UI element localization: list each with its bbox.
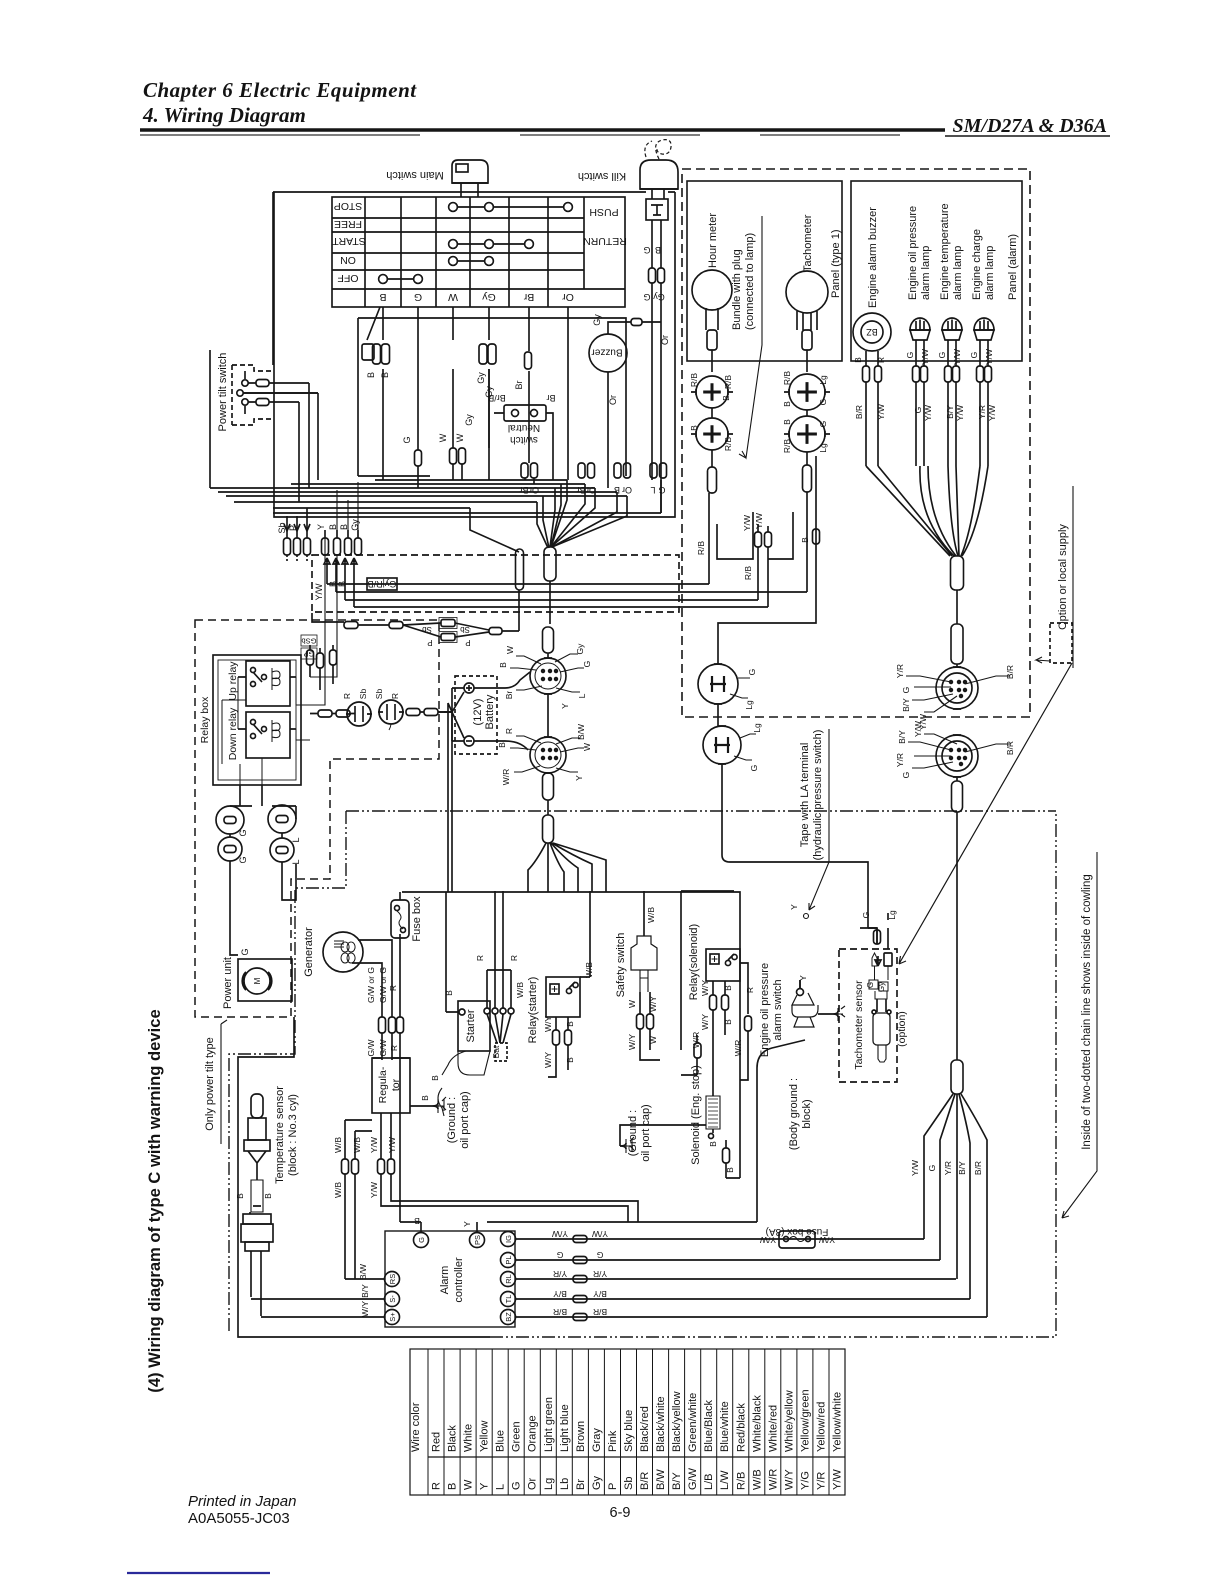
svg-text:W/R: W/R <box>501 769 511 786</box>
svg-text:L: L <box>291 859 301 864</box>
adapter cross-link cluster <box>312 613 519 643</box>
starter terminal cluster <box>484 891 514 1061</box>
regulator lower wires <box>342 1113 639 1279</box>
right fan labels <box>910 1160 983 1176</box>
svg-text:Panel (alarm): Panel (alarm) <box>1007 234 1019 300</box>
power tilt switch body <box>232 365 273 425</box>
svg-text:RS: RS <box>388 1274 397 1284</box>
svg-text:(Ground :: (Ground : <box>446 1097 458 1143</box>
svg-text:Safety switch: Safety switch <box>615 933 627 998</box>
svg-text:OFF: OFF <box>338 272 359 284</box>
svg-text:B/Y: B/Y <box>945 405 955 419</box>
svg-text:Fuse box: Fuse box <box>411 896 423 942</box>
starter B wire <box>438 1051 466 1116</box>
svg-text:G: G <box>969 352 979 359</box>
tachometer connector b <box>784 416 830 452</box>
svg-text:Yellow/green: Yellow/green <box>799 1389 811 1452</box>
relay box internal wires <box>222 677 310 785</box>
7pin leader lines upper <box>906 676 1010 712</box>
svg-text:Black: Black <box>447 1425 459 1452</box>
svg-text:oil port cap): oil port cap) <box>459 1091 471 1148</box>
svg-text:Alarm: Alarm <box>439 1266 451 1295</box>
svg-text:Orange: Orange <box>527 1415 539 1452</box>
svg-text:Y/W: Y/W <box>314 583 324 601</box>
svg-text:RL: RL <box>504 1274 513 1284</box>
temperature sensor label <box>274 1086 299 1184</box>
battery feed verticals <box>438 692 464 892</box>
svg-text:Engine alarm buzzer: Engine alarm buzzer <box>867 207 879 308</box>
svg-text:G/W or G: G/W or G <box>366 967 376 1003</box>
svg-text:Sb: Sb <box>277 522 287 533</box>
harness 6pin connector lower <box>530 737 566 773</box>
svg-text:W/Y: W/Y <box>543 1016 553 1032</box>
svg-text:W: W <box>455 433 465 442</box>
svg-text:R/B: R/B <box>782 371 792 386</box>
svg-text:TL: TL <box>504 1295 513 1304</box>
tilt connector wires <box>230 785 296 955</box>
svg-text:Y/W: Y/W <box>369 1182 379 1198</box>
svg-text:W: W <box>648 1036 658 1044</box>
svg-text:R/B: R/B <box>782 439 792 454</box>
svg-text:Y: Y <box>479 1482 491 1490</box>
svg-text:PL: PL <box>504 1255 513 1264</box>
down relay <box>238 712 296 758</box>
svg-text:Chapter 6 Electric Equipment: Chapter 6 Electric Equipment <box>143 78 417 102</box>
4pin upper leaders <box>730 678 750 698</box>
wires below cylinders <box>519 581 550 631</box>
hour meter <box>692 270 732 372</box>
engine connector cylinder right <box>951 1060 963 1094</box>
PS terminal wire <box>476 1222 478 1232</box>
panel connector cylinder <box>951 624 963 664</box>
svg-text:Blue: Blue <box>495 1430 507 1452</box>
svg-text:W/B: W/B <box>751 1469 763 1490</box>
svg-text:R/B: R/B <box>743 566 753 581</box>
power tilt switch contacts <box>237 371 318 414</box>
boxed labels G Sb / G P <box>301 635 317 659</box>
note leader line <box>739 216 762 458</box>
relay box outline <box>213 655 301 785</box>
svg-text:BZ: BZ <box>504 1312 513 1322</box>
svg-text:B: B <box>689 425 699 431</box>
relay solenoid box <box>706 949 740 981</box>
svg-text:White/red: White/red <box>767 1405 779 1452</box>
panel wires fan <box>866 466 988 556</box>
svg-text:Y/W: Y/W <box>832 1469 844 1490</box>
svg-text:Y/W: Y/W <box>923 405 933 421</box>
svg-text:B: B <box>366 372 376 378</box>
svg-text:alarm lamp: alarm lamp <box>952 246 964 300</box>
table contacts START row <box>449 240 534 249</box>
svg-text:G/W: G/W <box>378 1040 388 1057</box>
svg-text:Main switch: Main switch <box>386 169 443 181</box>
boxed label R/B <box>367 578 397 590</box>
svg-text:Light blue: Light blue <box>559 1404 571 1452</box>
svg-text:W/B: W/B <box>333 1137 343 1153</box>
svg-text:Gy: Gy <box>476 372 486 384</box>
kill switch drawing <box>640 160 678 220</box>
svg-text:G/W or G: G/W or G <box>378 967 388 1003</box>
svg-text:Blue/white: Blue/white <box>719 1401 731 1452</box>
body ground label <box>788 1078 813 1150</box>
table contacts STOP row <box>449 203 573 212</box>
svg-text:Gy: Gy <box>592 314 602 326</box>
svg-text:Tachometer sensor: Tachometer sensor <box>853 980 865 1070</box>
svg-text:B/Y: B/Y <box>671 1472 683 1490</box>
svg-text:(block : No.3 cyl): (block : No.3 cyl) <box>287 1094 299 1176</box>
relay starter box <box>546 977 580 1017</box>
option leader to tachometer sensor <box>899 663 1072 964</box>
svg-text:switch: switch <box>510 434 538 445</box>
svg-text:B/W: B/W <box>655 1469 667 1490</box>
option leader arrow to panel box <box>1036 657 1050 663</box>
alarm controller box <box>385 1231 515 1327</box>
svg-text:Relay box: Relay box <box>199 696 211 743</box>
svg-text:Br: Br <box>576 485 585 495</box>
svg-text:Or: Or <box>608 395 618 405</box>
svg-text:Wire color: Wire color <box>410 1402 422 1452</box>
svg-text:B/Y: B/Y <box>897 730 907 744</box>
svg-text:Y/R: Y/R <box>553 1269 567 1279</box>
svg-text:G: G <box>414 291 422 303</box>
svg-text:Gy: Gy <box>591 1475 603 1490</box>
W/R bullet on R wire <box>740 1016 752 1080</box>
svg-text:Bat: Bat <box>491 1045 501 1058</box>
second cylinder below chain <box>543 815 554 843</box>
svg-text:IG: IG <box>504 1235 513 1243</box>
svg-text:B: B <box>782 419 792 425</box>
svg-text:Gray: Gray <box>591 1428 603 1452</box>
svg-text:W/B: W/B <box>515 982 525 998</box>
wire to 7pin connector <box>956 664 958 667</box>
svg-text:Y/W: Y/W <box>387 1137 397 1153</box>
svg-text:G: G <box>417 1237 426 1243</box>
svg-text:Red/black: Red/black <box>735 1403 747 1452</box>
temp sensor wires to terminals <box>251 1274 384 1317</box>
tilt connector 1 <box>216 806 244 834</box>
svg-text:A0A5055-JC03: A0A5055-JC03 <box>188 1510 290 1527</box>
svg-text:Y/R: Y/R <box>895 664 905 678</box>
svg-text:ON: ON <box>340 254 356 266</box>
svg-text:Only power tilt type: Only power tilt type <box>204 1037 216 1131</box>
svg-text:B: B <box>414 1216 420 1226</box>
svg-text:G: G <box>901 687 911 694</box>
header rule <box>140 130 1110 136</box>
svg-text:Option or local supply: Option or local supply <box>1057 524 1069 630</box>
harness collector wires <box>210 350 661 552</box>
main switch key drawing <box>452 160 488 197</box>
svg-text:Red: Red <box>431 1432 443 1452</box>
svg-text:Buzzer: Buzzer <box>591 347 623 358</box>
kill switch wires <box>649 220 665 283</box>
main switch contact table <box>332 197 625 307</box>
tachometer sensor body <box>869 953 892 1062</box>
svg-text:Y: Y <box>462 1221 472 1227</box>
svg-text:G: G <box>749 765 759 772</box>
svg-text:R/B: R/B <box>723 437 733 452</box>
engine harness wire below <box>956 812 958 1060</box>
oil pressure switch label <box>759 963 784 1057</box>
svg-text:Hour meter: Hour meter <box>707 213 719 268</box>
svg-text:Gy: Gy <box>877 982 886 992</box>
svg-text:Battery: Battery <box>484 694 496 729</box>
svg-text:B: B <box>725 1167 735 1173</box>
svg-text:Engine oil pressure: Engine oil pressure <box>759 963 771 1057</box>
svg-text:W: W <box>463 1479 475 1490</box>
svg-text:B/Y: B/Y <box>593 1289 607 1299</box>
svg-text:B: B <box>263 1193 273 1199</box>
svg-text:B/R: B/R <box>1005 665 1015 679</box>
panel (alarm) box <box>851 181 1022 361</box>
svg-text:B/Y: B/Y <box>360 1284 370 1298</box>
svg-text:Y/W: Y/W <box>742 515 752 531</box>
svg-text:B: B <box>723 985 733 991</box>
alarm controller label <box>439 1257 465 1303</box>
svg-text:W: W <box>582 743 592 751</box>
svg-text:White/yellow: White/yellow <box>783 1390 795 1452</box>
svg-text:G: G <box>597 1250 604 1260</box>
svg-text:R: R <box>509 955 519 961</box>
svg-text:Solenoid (Eng. stop): Solenoid (Eng. stop) <box>690 1065 702 1165</box>
svg-text:Y/W: Y/W <box>552 1229 568 1239</box>
tilt connector 4 <box>270 838 294 862</box>
svg-text:Power tilt switch: Power tilt switch <box>217 353 229 432</box>
band bus wires <box>327 559 807 607</box>
G terminal wire <box>420 1222 422 1232</box>
relay starter wires <box>548 1017 572 1077</box>
svg-text:Y/G: Y/G <box>799 1471 811 1490</box>
svg-text:G: G <box>238 856 248 863</box>
meter connector links <box>712 408 807 467</box>
svg-text:G/W: G/W <box>687 1467 699 1490</box>
svg-text:R: R <box>745 987 755 993</box>
svg-text:Blue/Black: Blue/Black <box>703 1400 715 1452</box>
svg-text:L: L <box>495 1484 507 1490</box>
svg-text:Generator: Generator <box>303 927 315 977</box>
svg-text:B: B <box>430 1075 440 1081</box>
svg-text:Light green: Light green <box>543 1397 555 1452</box>
svg-text:(Ground :: (Ground : <box>627 1110 639 1156</box>
tape note underline + leader <box>804 729 830 919</box>
svg-text:Lg: Lg <box>543 1478 555 1490</box>
svg-text:G: G <box>747 669 757 676</box>
svg-text:Black/red: Black/red <box>639 1406 651 1452</box>
wire color legend table <box>410 1349 845 1495</box>
svg-text:B: B <box>565 1057 575 1063</box>
svg-text:Black/white: Black/white <box>655 1396 667 1452</box>
svg-text:Y/W: Y/W <box>955 405 965 421</box>
battery to connector wires <box>474 672 530 750</box>
svg-text:W/R: W/R <box>767 1469 779 1490</box>
svg-text:S-: S- <box>388 1295 397 1303</box>
tilt connector 2 <box>268 805 296 833</box>
6pin upper leaders <box>510 654 584 692</box>
svg-text:Black/yellow: Black/yellow <box>671 1391 683 1452</box>
svg-text:Panel (type 1): Panel (type 1) <box>830 230 842 298</box>
solenoid ground wire <box>620 1125 706 1153</box>
svg-text:B: B <box>235 1193 245 1199</box>
svg-text:Y/W: Y/W <box>952 349 962 365</box>
svg-text:Or: Or <box>527 1477 539 1490</box>
svg-text:B/R: B/R <box>593 1307 607 1317</box>
link wire <box>956 590 958 624</box>
svg-text:Or: Or <box>562 291 574 303</box>
svg-text:START: START <box>332 235 366 247</box>
inside of cowling note <box>1062 852 1097 1218</box>
temperature sensor <box>241 1094 273 1316</box>
svg-text:Y/W: Y/W <box>876 404 886 420</box>
tilt connector 3 <box>218 837 242 861</box>
svg-text:W/Y: W/Y <box>543 1052 553 1068</box>
svg-text:Lg: Lg <box>752 723 762 733</box>
neutral switch label <box>508 422 540 445</box>
svg-text:Engine charge: Engine charge <box>971 229 983 300</box>
svg-text:B/R: B/R <box>553 1307 567 1317</box>
4pin wires <box>718 456 877 944</box>
svg-text:Relay(starter): Relay(starter) <box>527 977 539 1044</box>
buzzer <box>589 334 627 372</box>
cowling chain line <box>229 811 1056 1337</box>
svg-text:R/B: R/B <box>689 373 699 388</box>
panel 7pin connector lower <box>936 735 978 777</box>
svg-text:R/B: R/B <box>696 541 706 556</box>
svg-text:B/W: B/W <box>576 724 586 740</box>
svg-text:Sb: Sb <box>460 625 470 634</box>
svg-text:B: B <box>380 372 390 378</box>
safety switch wires <box>637 992 661 1060</box>
svg-text:L/W: L/W <box>719 1470 731 1490</box>
svg-text:L: L <box>577 693 587 698</box>
svg-text:alarm lamp: alarm lamp <box>984 246 996 300</box>
svg-text:W: W <box>505 646 515 654</box>
engine section box <box>402 892 740 1178</box>
6pin cylinder below <box>543 773 554 800</box>
svg-text:(12V): (12V) <box>472 699 484 726</box>
battery dashed box <box>444 676 497 754</box>
option or local supply label <box>1057 486 1073 668</box>
W/R bullets <box>681 1035 701 1075</box>
svg-text:Yellow/white: Yellow/white <box>832 1392 844 1452</box>
svg-text:B/R: B/R <box>639 1472 651 1490</box>
svg-text:Y/R: Y/R <box>815 1472 827 1490</box>
svg-text:B: B <box>800 537 810 543</box>
option dashed box <box>1050 623 1072 663</box>
svg-text:Regula-: Regula- <box>377 1066 389 1103</box>
buzzer wires <box>608 319 661 335</box>
wire drops from switch table <box>362 307 568 463</box>
svg-text:Y/W: Y/W <box>913 721 923 737</box>
connector bullets to tilt harness <box>284 383 362 562</box>
svg-text:Br: Br <box>514 380 524 389</box>
svg-text:PS: PS <box>473 1235 482 1245</box>
engine alarm buzzer BZ <box>853 313 891 351</box>
hour meter connector a <box>691 376 733 408</box>
svg-text:W/B: W/B <box>333 1182 343 1198</box>
control head inner box <box>358 318 626 476</box>
regulator box <box>372 1058 410 1113</box>
neutral switch <box>494 405 553 421</box>
svg-text:G/W: G/W <box>366 1040 376 1057</box>
svg-text:Y/W: Y/W <box>910 1160 920 1176</box>
svg-text:G: G <box>511 1481 523 1490</box>
harness cylinder A <box>516 549 524 590</box>
svg-text:Y/W: Y/W <box>984 349 994 365</box>
svg-text:(connected to lamp): (connected to lamp) <box>744 233 756 330</box>
6pin link wires <box>547 653 549 737</box>
svg-text:B: B <box>853 357 863 363</box>
svg-text:Starter: Starter <box>465 1009 477 1042</box>
right harness fan <box>924 1094 987 1317</box>
svg-text:Lb: Lb <box>559 1478 571 1490</box>
svg-text:L/B: L/B <box>703 1473 715 1490</box>
up relay <box>238 661 296 706</box>
bullet trio below <box>307 645 337 690</box>
svg-text:L: L <box>291 837 301 842</box>
svg-text:W/Y: W/Y <box>627 1034 637 1050</box>
svg-text:Y/W: Y/W <box>754 513 764 529</box>
svg-text:6-9: 6-9 <box>610 1505 631 1521</box>
svg-text:Green/white: Green/white <box>687 1393 699 1452</box>
svg-text:W: W <box>627 1000 637 1008</box>
svg-text:Y/W: Y/W <box>592 1229 608 1239</box>
svg-text:G: G <box>238 829 248 836</box>
svg-text:R: R <box>388 985 398 991</box>
svg-text:G: G <box>402 436 412 443</box>
relay starter top wires <box>580 891 644 977</box>
svg-text:Br: Br <box>504 691 514 700</box>
svg-text:Kill switch: Kill switch <box>578 170 626 182</box>
starter box <box>446 892 490 1075</box>
bottom blue rule <box>127 1572 270 1574</box>
svg-text:Gy: Gy <box>653 292 665 302</box>
solenoid coil <box>706 1096 720 1139</box>
svg-text:Power unit: Power unit <box>222 957 234 1009</box>
oil pressure alarm switch <box>792 980 845 1027</box>
alarm controller terminals <box>385 1232 516 1325</box>
tape with LA terminal note <box>799 730 824 861</box>
svg-text:Gy: Gy <box>464 414 474 426</box>
control head outer box <box>274 192 675 517</box>
svg-text:Yellow/red: Yellow/red <box>815 1402 827 1452</box>
engine inner partition <box>681 891 734 1050</box>
svg-text:Or: Or <box>622 485 632 495</box>
svg-text:Sb: Sb <box>422 625 432 634</box>
svg-text:R: R <box>431 1482 443 1490</box>
svg-text:B/R: B/R <box>973 1161 983 1175</box>
svg-text:B: B <box>655 245 661 255</box>
svg-text:B: B <box>565 1021 575 1027</box>
svg-text:B: B <box>497 742 507 748</box>
svg-text:Sky blue: Sky blue <box>623 1410 635 1452</box>
relay box to bullet wires <box>296 482 358 705</box>
svg-text:Br: Br <box>519 485 528 495</box>
engine harness fan from 6pin <box>528 843 606 892</box>
tachometer connector a <box>784 374 830 410</box>
svg-text:B: B <box>447 1483 459 1490</box>
svg-text:Lg: Lg <box>887 910 897 920</box>
svg-text:Sb: Sb <box>623 1477 635 1490</box>
hour meter connector b <box>691 418 733 450</box>
svg-text:B: B <box>723 1019 733 1025</box>
svg-text:P: P <box>465 638 470 647</box>
svg-text:BZ: BZ <box>866 327 878 337</box>
svg-text:Green: Green <box>511 1421 523 1452</box>
svg-text:B: B <box>721 395 731 401</box>
svg-text:Y/R: Y/R <box>943 1161 953 1175</box>
svg-text:oil port cap): oil port cap) <box>640 1104 652 1161</box>
svg-text:R/B: R/B <box>735 1472 747 1490</box>
panel harness cylinder <box>951 556 964 590</box>
